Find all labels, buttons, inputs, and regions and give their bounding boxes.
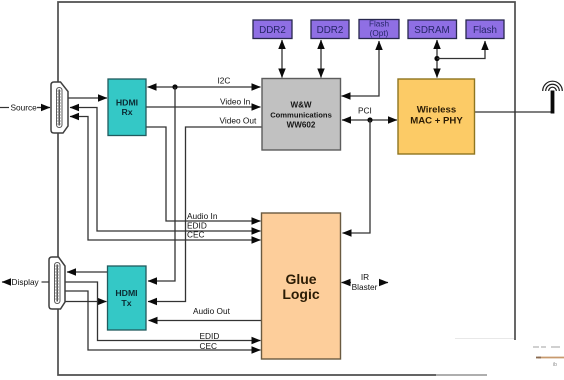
label Video In — [220, 96, 251, 106]
wire EDID top — [70, 108, 261, 232]
svg-text:Communications: Communications — [270, 110, 332, 119]
svg-text:DDR2: DDR2 — [317, 25, 344, 36]
svg-text:Video Out: Video Out — [220, 115, 257, 125]
watermark dashes — [533, 347, 564, 368]
wire CEC top — [70, 117, 261, 241]
label I2C — [218, 76, 231, 86]
wire IR blaster right arrow — [379, 282, 388, 284]
label Audio Out — [193, 306, 231, 316]
svg-text:Glue: Glue — [285, 271, 316, 287]
wire IR blaster left arrow — [342, 282, 352, 284]
label PCI — [358, 105, 372, 115]
svg-text:IR: IR — [361, 272, 369, 282]
block Glue Logic — [262, 213, 341, 359]
label CEC top — [187, 229, 205, 239]
wire branch to Flash — [437, 41, 485, 59]
label EDID top — [187, 220, 207, 230]
label CEC bottom — [200, 341, 218, 351]
wire SDRAM to Wireless — [436, 40, 438, 78]
block W&W Communications WW602 — [262, 79, 341, 151]
block HDMI Rx — [108, 79, 146, 136]
svg-text:Flash: Flash — [369, 20, 389, 29]
svg-text:CEC: CEC — [200, 341, 218, 351]
svg-text:Wireless: Wireless — [417, 105, 456, 116]
label Source with arrow — [0, 102, 50, 112]
junction dot SDRAM branch — [434, 56, 439, 61]
block HDMI Tx — [108, 266, 147, 330]
label Audio In — [187, 211, 218, 221]
svg-text:Rx: Rx — [121, 107, 132, 117]
junction dot PCI — [367, 117, 372, 122]
junction dot I2C — [172, 84, 177, 89]
svg-text:Audio Out: Audio Out — [193, 306, 231, 316]
wire HDMI Tx to Display — [67, 271, 107, 273]
svg-text:ib: ib — [553, 362, 557, 368]
board outline border — [58, 2, 515, 375]
svg-text:CEC: CEC — [187, 229, 205, 239]
label Video Out — [220, 115, 257, 125]
svg-text:HDMI: HDMI — [116, 98, 138, 108]
wire CEC bottom — [66, 291, 261, 350]
svg-text:Blaster: Blaster — [352, 282, 378, 292]
HDMI connector Display — [49, 257, 65, 309]
wire WW602 to Flash(Opt) — [342, 41, 380, 96]
wire Source to HDMI Rx — [68, 97, 107, 99]
svg-text:SDRAM: SDRAM — [414, 25, 449, 36]
HDMI connector Source — [51, 82, 68, 133]
wire Video Out to HDMI Tx — [148, 127, 262, 302]
wire DDR2-1 to WW602 — [281, 40, 283, 78]
svg-text:EDID: EDID — [200, 331, 220, 341]
svg-text:MAC + PHY: MAC + PHY — [410, 115, 463, 126]
antenna — [543, 81, 563, 113]
wire Display to HDMI Tx — [66, 301, 107, 303]
svg-text:DDR2: DDR2 — [259, 25, 286, 36]
svg-text:Source: Source — [11, 102, 38, 112]
wire DDR2-2 to WW602 — [320, 40, 322, 78]
wire PCI — [342, 119, 397, 121]
block SDRAM — [408, 20, 457, 39]
block Wireless MAC + PHY — [398, 79, 475, 154]
wire I2C HDMI Rx to WW602 — [148, 86, 261, 88]
svg-text:Video In: Video In — [220, 96, 251, 106]
label Display with arrow — [2, 277, 49, 287]
svg-text:(Opt): (Opt) — [370, 29, 389, 38]
svg-text:WW602: WW602 — [287, 121, 316, 130]
svg-text:PCI: PCI — [358, 105, 372, 115]
block Flash — [466, 20, 504, 39]
block DDR2 #2 — [311, 20, 349, 39]
svg-text:Display: Display — [12, 277, 40, 287]
svg-text:W&W: W&W — [290, 100, 311, 109]
block DDR2 #1 — [253, 20, 292, 39]
svg-text:I2C: I2C — [218, 76, 231, 86]
wire Audio Out — [149, 320, 262, 322]
block Flash (Opt) — [359, 20, 399, 39]
svg-text:Logic: Logic — [282, 286, 320, 302]
wire EDID bottom — [66, 282, 261, 341]
svg-text:Flash: Flash — [473, 25, 497, 36]
wire Video In — [147, 106, 261, 108]
svg-text:Tx: Tx — [121, 298, 131, 308]
wire I2C branch to HDMI Tx — [148, 87, 175, 281]
wire antenna feed — [475, 111, 552, 113]
label IR Blaster — [352, 272, 378, 292]
wire Audio In — [147, 127, 261, 221]
wire PCI branch to Glue Logic — [343, 120, 371, 233]
label EDID bottom — [200, 331, 220, 341]
svg-text:HDMI: HDMI — [115, 288, 137, 298]
